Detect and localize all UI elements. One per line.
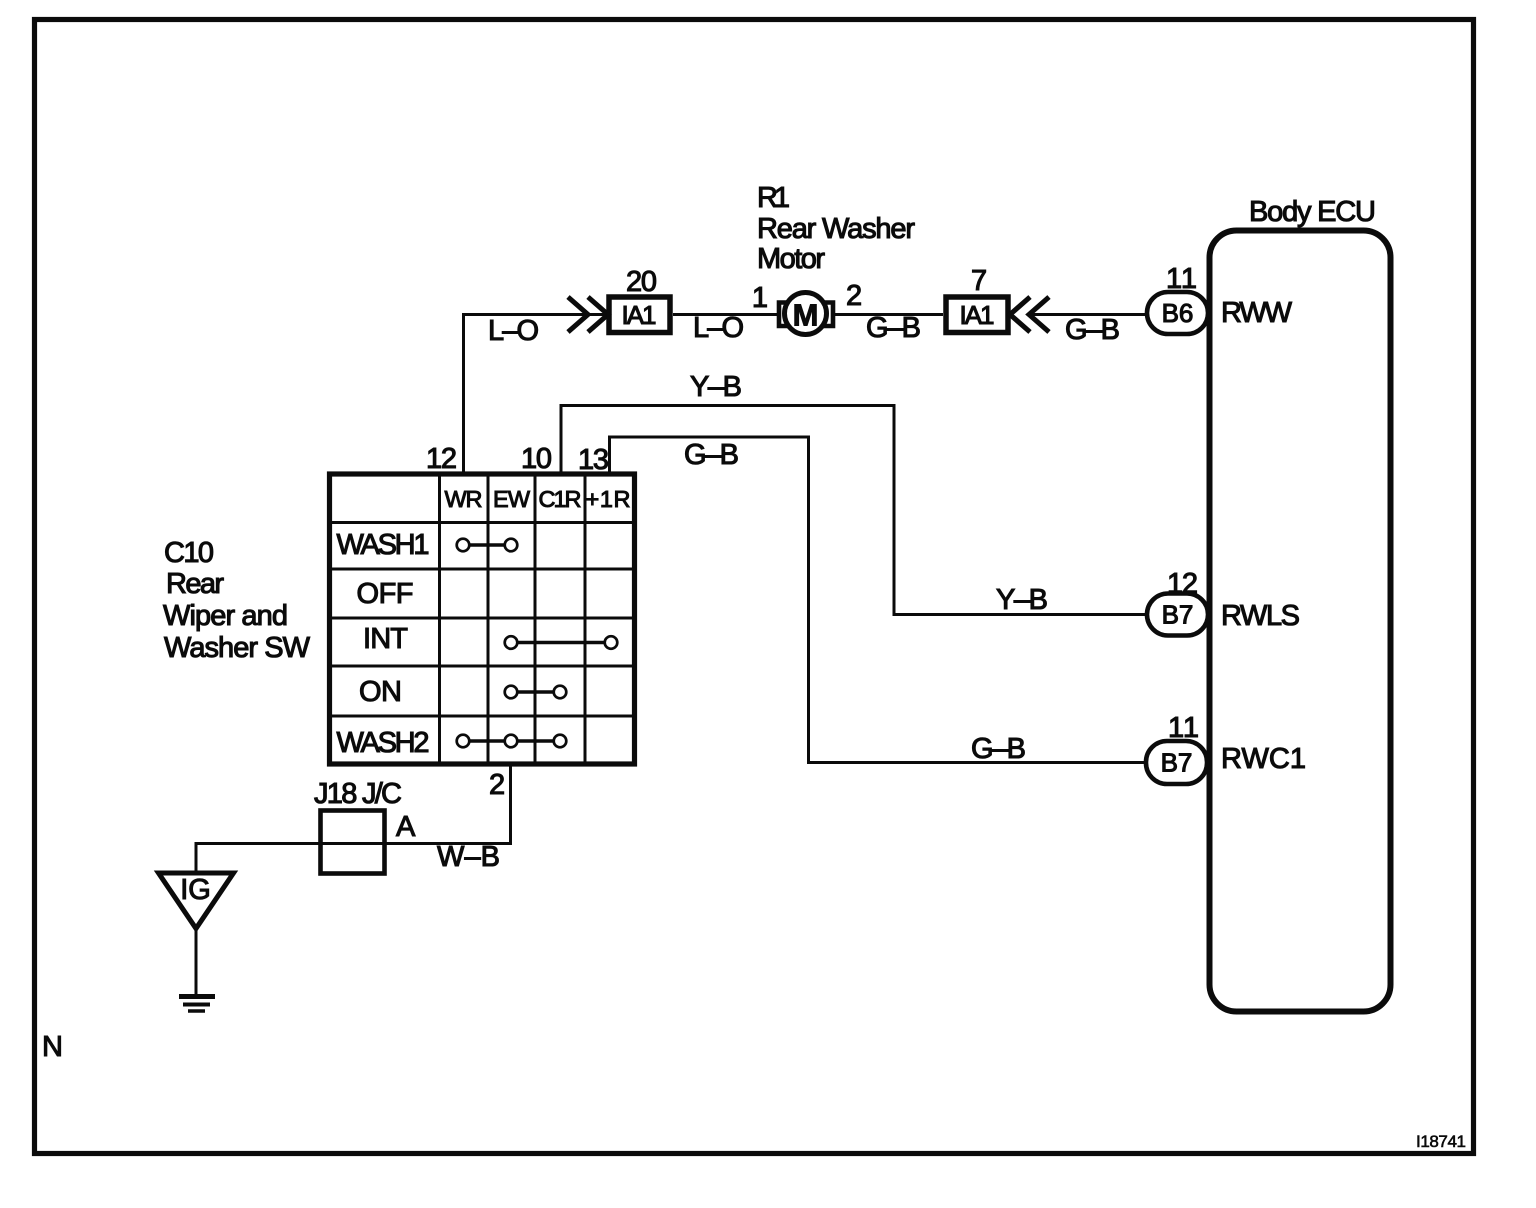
svg-text:Rear Washer: Rear Washer bbox=[757, 213, 915, 245]
svg-text:Rear: Rear bbox=[166, 568, 224, 600]
label 11 (pin B6) bbox=[1166, 263, 1197, 295]
label 20 (pin) bbox=[626, 266, 657, 298]
svg-text:10: 10 bbox=[521, 443, 552, 475]
label 10 (switch pin C1R) bbox=[521, 443, 552, 475]
svg-text:WASH2: WASH2 bbox=[337, 727, 430, 759]
label 2 (motor pin) bbox=[846, 280, 862, 312]
svg-text:WR: WR bbox=[445, 486, 483, 512]
svg-text:RWW: RWW bbox=[1221, 297, 1293, 329]
arrow chevrons into IA1 (male connector) bbox=[568, 297, 608, 332]
label G-B (middle) bbox=[684, 439, 739, 471]
label Body ECU bbox=[1249, 196, 1376, 228]
label I18741 (figure id) bbox=[1416, 1132, 1466, 1151]
switch contact WASH1 row (WR-EW) bbox=[457, 539, 518, 552]
svg-text:RWC1: RWC1 bbox=[1221, 743, 1306, 775]
svg-text:N: N bbox=[42, 1031, 63, 1063]
svg-text:EW: EW bbox=[493, 486, 531, 512]
svg-text:Wiper and: Wiper and bbox=[163, 600, 288, 632]
svg-text:WASH1: WASH1 bbox=[337, 529, 430, 561]
label L-O (left) bbox=[488, 315, 539, 347]
svg-text:Y–B: Y–B bbox=[690, 371, 742, 403]
switch contact WASH2 row (WR-EW-C1R) bbox=[457, 735, 567, 748]
svg-text:OFF: OFF bbox=[357, 578, 414, 610]
connector pin B7 (RWC1) bbox=[1146, 741, 1207, 784]
svg-text:J18 J/C: J18 J/C bbox=[314, 778, 402, 810]
ground symbol bbox=[179, 997, 215, 1012]
label G-B (right low) bbox=[971, 733, 1026, 765]
svg-text:L–O: L–O bbox=[693, 312, 744, 344]
svg-text:RWLS: RWLS bbox=[1221, 600, 1300, 632]
table column header +1R bbox=[586, 486, 631, 512]
connector pin B6 bbox=[1147, 292, 1208, 334]
svg-text:A: A bbox=[396, 811, 416, 843]
switch contact ON row (EW-C1R) bbox=[505, 686, 567, 699]
svg-text:C1R: C1R bbox=[539, 486, 582, 512]
table row label INT bbox=[363, 623, 408, 655]
svg-text:Motor: Motor bbox=[757, 243, 825, 275]
label C10 Rear Wiper and Washer SW bbox=[163, 537, 311, 664]
table column header WR bbox=[445, 486, 483, 512]
svg-text:B6: B6 bbox=[1162, 298, 1194, 328]
svg-text:Washer SW: Washer SW bbox=[164, 632, 311, 664]
svg-text:2: 2 bbox=[846, 280, 862, 312]
table row label WASH2 bbox=[337, 727, 430, 759]
table column header EW bbox=[493, 486, 531, 512]
arrow chevrons out of IA1 (female connector) bbox=[1010, 297, 1049, 332]
power source IG bbox=[159, 873, 234, 929]
label 7 (pin) bbox=[971, 265, 987, 297]
svg-text:G–B: G–B bbox=[684, 439, 739, 471]
svg-text:2: 2 bbox=[489, 769, 505, 801]
table row label WASH1 bbox=[337, 529, 430, 561]
connector IA1 (pin 7) bbox=[946, 297, 1008, 333]
label N (page marker) bbox=[42, 1031, 63, 1063]
svg-text:IA1: IA1 bbox=[622, 300, 657, 330]
label Y-B (right) bbox=[996, 584, 1048, 616]
label RWC1 (ECU terminal) bbox=[1221, 743, 1306, 775]
label 12 (pin B7) bbox=[1167, 568, 1198, 600]
svg-text:Body ECU: Body ECU bbox=[1249, 196, 1376, 228]
label W-B bbox=[437, 841, 500, 873]
label G-B (motor side) bbox=[866, 312, 921, 344]
svg-text:IG: IG bbox=[180, 874, 211, 906]
label R1 Rear Washer Motor bbox=[757, 182, 915, 275]
svg-text:G–B: G–B bbox=[866, 312, 921, 344]
ECU block Body ECU bbox=[1210, 231, 1391, 1012]
svg-text:G–B: G–B bbox=[1065, 314, 1120, 346]
connector pin B7 (RWLS) bbox=[1147, 594, 1208, 636]
label 12 (switch pin WR) bbox=[426, 443, 457, 475]
label 1 (motor pin) bbox=[752, 282, 768, 314]
junction block J18 bbox=[321, 811, 385, 874]
svg-text:ON: ON bbox=[359, 676, 402, 708]
label 13 (switch pin +1R) bbox=[578, 444, 609, 476]
motor R1 symbol bbox=[779, 293, 833, 335]
svg-text:R1: R1 bbox=[757, 182, 790, 214]
svg-text:L–O: L–O bbox=[488, 315, 539, 347]
svg-text:B7: B7 bbox=[1161, 748, 1193, 778]
label RWLS (ECU terminal) bbox=[1221, 600, 1300, 632]
switch contact INT row (EW-+1R) bbox=[505, 636, 618, 649]
wire L-O from IA1 to motor pin 1 bbox=[673, 313, 778, 316]
wire W-B from switch pin 2 to junction J18 and IG bbox=[196, 764, 511, 871]
svg-text:B7: B7 bbox=[1162, 600, 1194, 630]
label 11 (pin B7 RWC1) bbox=[1168, 712, 1199, 744]
table column header C1R bbox=[539, 486, 582, 512]
svg-text:G–B: G–B bbox=[971, 733, 1026, 765]
label RWW (ECU terminal) bbox=[1221, 297, 1293, 329]
svg-text:1: 1 bbox=[752, 282, 768, 314]
svg-text:13: 13 bbox=[578, 444, 609, 476]
svg-text:INT: INT bbox=[363, 623, 408, 655]
svg-text:C10: C10 bbox=[164, 537, 214, 569]
wire L-O from switch pin 12 to connector IA1 bbox=[464, 315, 607, 473]
label L-O (right) bbox=[693, 312, 744, 344]
label J18 J/C bbox=[314, 778, 402, 810]
svg-text:12: 12 bbox=[426, 443, 457, 475]
wire G-B from IA1 to ECU pin B6 bbox=[1030, 313, 1148, 316]
label G-B (ECU side) bbox=[1065, 314, 1120, 346]
wire Y-B from switch pin 10 to ECU pin B7 bbox=[561, 406, 1148, 615]
svg-text:Y–B: Y–B bbox=[996, 584, 1048, 616]
svg-text:W–B: W–B bbox=[437, 841, 500, 873]
table row label OFF bbox=[357, 578, 414, 610]
svg-text:+1R: +1R bbox=[586, 486, 631, 512]
connector IA1 (pin 20) bbox=[609, 297, 670, 333]
switch C10 table grid bbox=[330, 474, 635, 764]
svg-text:I18741: I18741 bbox=[1416, 1132, 1466, 1151]
wire IG to ground bbox=[195, 930, 198, 994]
svg-text:M: M bbox=[793, 298, 819, 333]
wire G-B from switch pin 13 to ECU pin B7 bbox=[610, 437, 1147, 763]
label 2 (switch pin EW) bbox=[489, 769, 505, 801]
label A (junction pin) bbox=[396, 811, 416, 843]
label Y-B (top) bbox=[690, 371, 742, 403]
svg-text:IA1: IA1 bbox=[960, 300, 995, 330]
svg-text:7: 7 bbox=[971, 265, 987, 297]
svg-text:20: 20 bbox=[626, 266, 657, 298]
table row label ON bbox=[359, 676, 402, 708]
wire G-B from motor pin 2 to connector IA1 (pin 7) bbox=[834, 313, 943, 316]
